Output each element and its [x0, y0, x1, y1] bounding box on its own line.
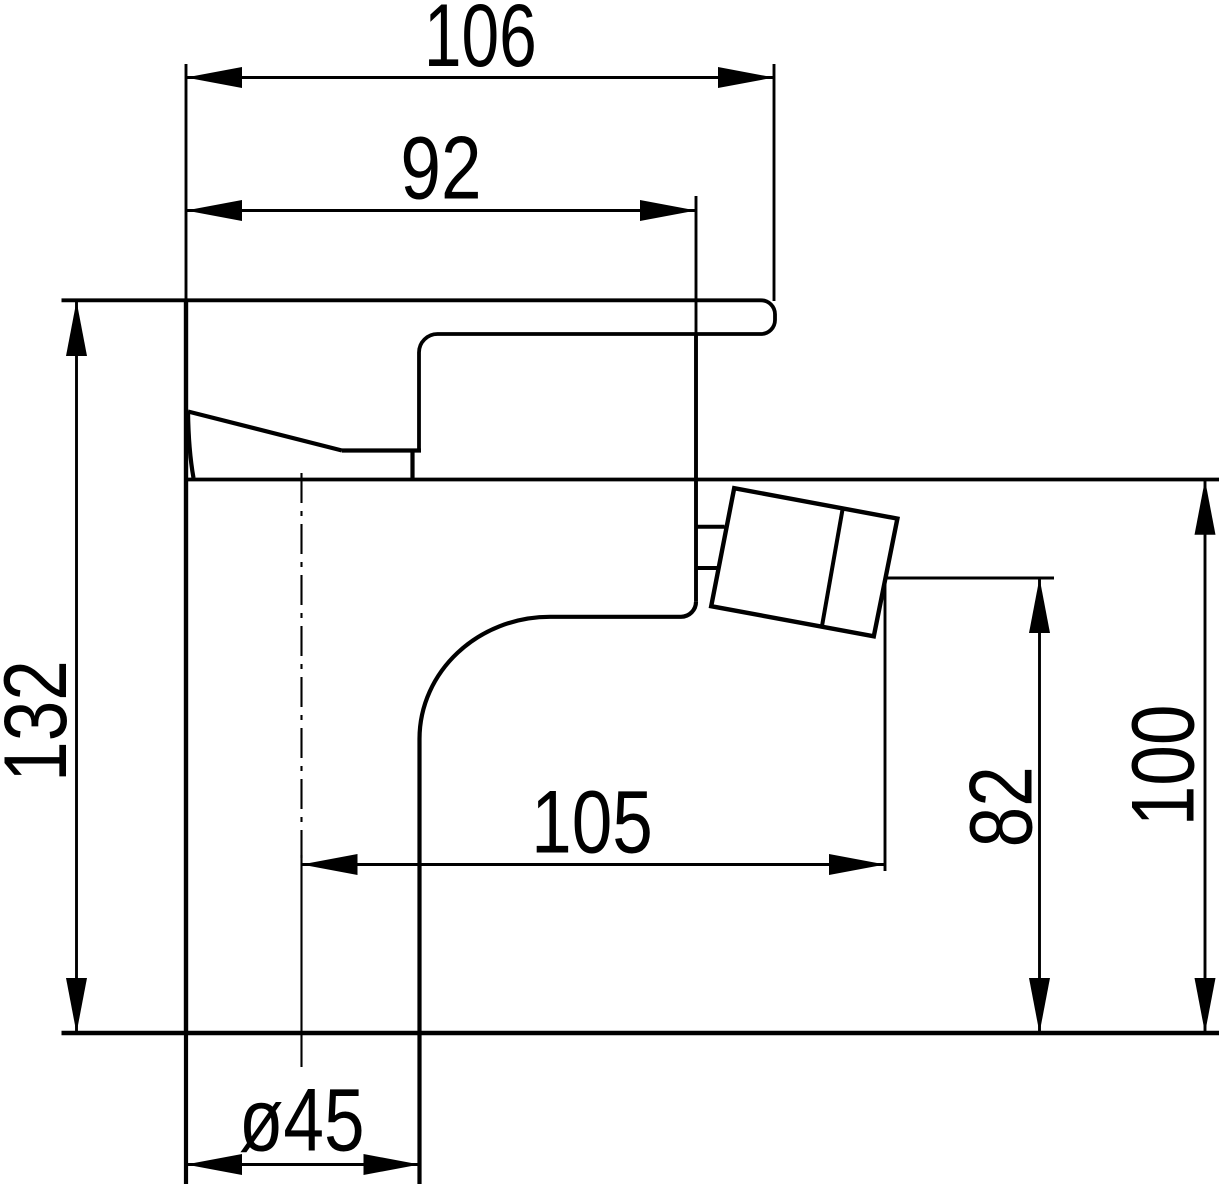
svg-text:100: 100	[1114, 705, 1214, 827]
svg-text:82: 82	[952, 766, 1052, 847]
svg-text:132: 132	[0, 660, 86, 782]
svg-text:ø45: ø45	[239, 1071, 365, 1171]
svg-text:92: 92	[400, 119, 481, 219]
svg-text:106: 106	[424, 0, 537, 85]
svg-text:105: 105	[531, 773, 653, 873]
